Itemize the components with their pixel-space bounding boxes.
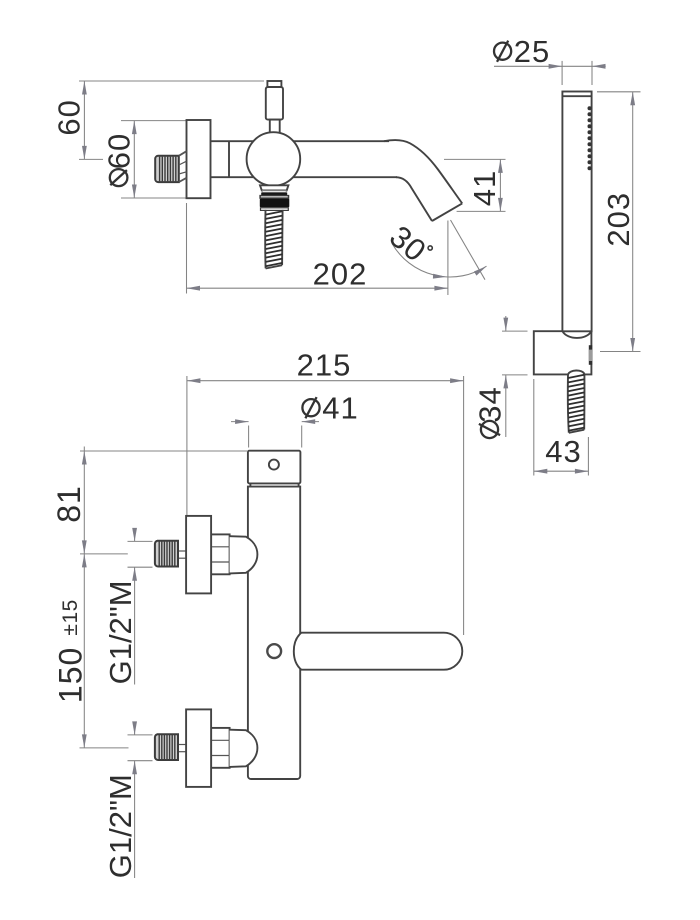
diverter lower ring [261,208,289,211]
angle 30deg: arc [392,244,487,277]
dimension 60: dimension line [83,81,85,159]
svg-text:25: 25 [514,34,550,69]
dimension 81: arrows [82,451,87,465]
mixer body column [248,487,300,779]
lever handle [294,633,463,670]
wall bracket [248,451,301,484]
wall flange (side) [187,120,211,198]
dimension phi25: arrows (outside) [549,64,563,69]
svg-text:30: 30 [383,219,433,269]
svg-text:150: 150 [53,647,89,703]
dimension phi34: label [473,386,508,438]
svg-text:±15: ±15 [59,599,82,635]
dimension 60: arrow up [82,81,87,95]
dimension 150: extension mid (top inlet axis) [80,553,128,555]
dimension 215: dimension line [187,380,464,382]
dimension 41: arrows [498,159,503,173]
dimension 203: extension bottom [600,351,641,353]
bottom inlet: stem lines [178,744,186,746]
flexible hose (coil) [265,210,282,269]
dimension phi60: arrow up [132,121,137,135]
svg-text:203: 203 [601,192,636,247]
dimension 41: dimension line [499,159,501,211]
top inlet: escutcheon flange [186,516,211,594]
taper from nipple to flange [179,151,187,182]
diverter thin ring [262,191,286,193]
dimension phi25: dimension line [494,65,606,67]
mixer ball [247,132,301,186]
dimension 150: label [53,647,89,703]
dimension 41: extension bottom (tip) [457,210,506,212]
svg-text:202: 202 [313,257,368,292]
dimension phi25: extension lines [561,61,563,85]
dimension 150: tolerance label [59,599,82,635]
dimension phi34: dimension line segments [505,316,507,331]
G1/2 bottom: arrows (outside) [132,721,137,735]
G1/2 top: label [103,580,138,684]
holder clip detail [589,345,592,365]
spout lower edge [396,177,432,221]
dimension phi41: extension lines [248,426,250,448]
angle 30deg: label [383,219,436,271]
dimension 215: extension left [186,376,188,516]
svg-text:43: 43 [545,434,581,469]
shower wand body [562,92,591,332]
svg-text:60: 60 [102,133,137,169]
tube joint line [228,141,230,177]
bottom inlet: escutcheon flange [186,709,211,787]
wand cap line [562,95,591,97]
dimension 150: arrows [82,554,87,568]
G1/2 bottom: dimension line segments [134,722,136,735]
G1/2 bottom: extension lines [128,734,153,736]
neck below bracket [249,483,251,486]
dimension 41: label [467,170,502,206]
svg-text:60: 60 [51,99,86,135]
spout upper edge [384,140,462,203]
svg-text:41: 41 [322,391,358,426]
svg-text:G1/2"M: G1/2"M [103,580,138,684]
dimension 203: arrows [630,92,635,106]
dimension 150: extension bottom (bottom inlet axis) [80,747,129,749]
svg-text:41: 41 [467,170,502,206]
svg-text:34: 34 [473,386,508,422]
dimension phi34: extension top [502,330,528,332]
dimension 203: extension top [597,91,641,93]
dimension 203: dimension line [632,92,634,352]
svg-text:G1/2"M: G1/2"M [103,774,138,878]
dimension phi60: label [102,133,137,169]
body tube lines [211,140,390,142]
top inlet: hex nut [211,534,230,574]
dimension 60: arrow down [82,146,87,160]
dimension phi60: arrow down [132,185,137,199]
dimension 202: extension left [186,203,188,294]
dimension 81: label [51,485,87,523]
dimension phi34: arrows (outside) [503,318,508,332]
dimension phi34: extension bottom [502,374,528,376]
G1/2 top: dimension line segments [134,528,136,541]
dimension 60: extension line bottom (axis level) [79,158,103,160]
diverter collar [260,185,288,190]
dimension 215: arrows [187,378,201,383]
G1/2 top: arrows (outside) [132,528,137,542]
G1/2 top: extension lines [128,540,153,542]
handle knob cap [267,81,281,87]
dimension 81: dimension line [83,447,85,554]
dimension phi25: label [494,41,511,62]
bottom inlet: hex nut [211,728,230,768]
top inlet: threaded nipple G1/2 [155,541,178,567]
diverter dark thin band [261,193,287,196]
column screw [267,644,281,658]
threaded inlet nipple [155,156,179,182]
dimension 60: label [51,99,86,135]
dimension 215: extension right [463,376,465,635]
dimension 43: arrows [534,469,548,474]
dimension 60: extension line top (knob top level) [79,80,264,82]
dimension phi41: arrows (outside) [235,419,249,424]
bottom inlet: dome [230,730,258,767]
dimension phi60: extension line top [121,120,186,122]
dimension 202: arrows [187,286,201,291]
handle grip [266,87,283,120]
dimension 43: extension left [533,379,535,476]
angle 30deg: arc arrows [433,274,447,279]
dimension phi41: label [302,397,319,418]
dimension phi60: dimension line [133,121,135,198]
dimension 202: dimension line [187,287,448,289]
top inlet: stem lines [178,550,186,552]
svg-text:81: 81 [51,485,87,523]
dimension 43: extension right [587,437,589,476]
SIDE VIEW (top-left faucet) [51,81,505,295]
dimension phi60: extension line bottom [121,197,186,199]
FRONT VIEW (bottom-left) [51,348,464,879]
diverter black band [260,199,290,208]
dimension 43: dimension line [534,470,589,472]
dimension 203: label [601,192,636,247]
diverter white ring [260,196,288,199]
HAND SHOWER VIEW (right) [473,34,641,476]
angle 30deg: slanted leg [451,220,486,280]
dimension 81: extension top [80,450,248,452]
dimension 202: extension right / angle leg [447,221,449,296]
shower hose (ribbed) [568,370,585,432]
spout outlet face [432,203,462,221]
handle stem [270,120,280,134]
svg-text:215: 215 [297,348,352,383]
G1/2 bottom: label [103,774,138,878]
top inlet: dome [230,536,258,573]
bottom inlet: threaded nipple G1/2 [155,734,178,760]
wall bracket screw hole [269,460,279,470]
wand spray dots [588,106,592,170]
wall holder bracket [534,331,592,374]
dimension phi41: dimension line segments [231,421,249,423]
dimension 41: extension top (axis) [444,158,506,160]
dimension 150: dimension line [83,554,85,748]
